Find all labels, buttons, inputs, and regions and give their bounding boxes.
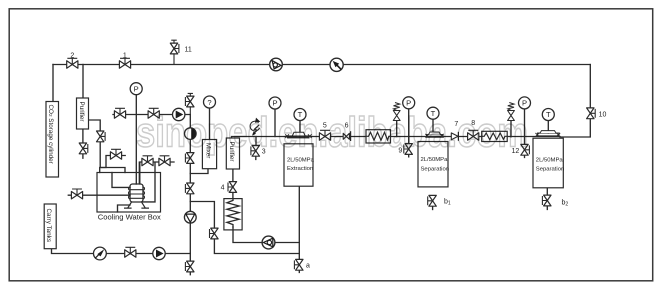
wire main process line (232, 137, 561, 139)
svg-text:Separation: Separation (536, 167, 565, 173)
separation vessel 2 (533, 131, 563, 188)
valve 3 (251, 145, 260, 156)
cooling water inlet valve 1 (142, 156, 153, 166)
valve 8 (468, 130, 479, 140)
wire purifier1 side outlet through valve into water box (89, 120, 126, 173)
wire P4 gauge stem and vent 12 stub (524, 109, 526, 158)
separation vessel 1 (418, 132, 448, 187)
gauge question (204, 96, 216, 108)
vent valve 9 (404, 144, 413, 155)
cooling water inlet valve 2 (159, 156, 170, 166)
manifold valve left (114, 108, 125, 118)
CO2 storage cylinder (46, 102, 59, 178)
wire branch from column to valve and lower line (190, 202, 299, 254)
svg-text:T: T (546, 110, 551, 119)
column valve lower (185, 183, 194, 194)
svg-text:b1: b1 (444, 199, 451, 207)
circulation pump (262, 236, 275, 249)
svg-text:10: 10 (599, 112, 607, 119)
heat exchanger 2 (horizontal zigzag) (482, 131, 508, 141)
wire gauge P1 column down to cooling coil (135, 95, 137, 184)
svg-text:11: 11 (185, 46, 192, 53)
heater (vertical zigzag) (224, 199, 242, 230)
wire extraction vessel bottom column (298, 186, 300, 273)
valve 4 (228, 182, 237, 193)
purifier1 vent valve (79, 143, 88, 154)
wire purifier1 bottom stem (82, 129, 84, 158)
svg-text:1: 1 (123, 52, 127, 59)
wire CO2 cylinder riser (52, 65, 54, 102)
vent valve 12 (521, 144, 530, 155)
svg-text:4: 4 (221, 185, 225, 192)
wire separation1 drain stub (432, 206, 434, 209)
valve 5 (319, 130, 330, 140)
pressure regulator (250, 118, 260, 136)
gauge T3 (542, 109, 554, 121)
svg-text:Separation: Separation (421, 166, 450, 172)
valve 6 (small with bar) (343, 132, 350, 141)
cooling water feed valve (110, 149, 121, 159)
gauge P1 (130, 83, 142, 95)
svg-text:2L/50MPa: 2L/50MPa (287, 157, 315, 163)
relief valve 2 (508, 103, 515, 121)
extraction vessel 2L/50MPa (284, 132, 313, 186)
svg-text:2L/50MPa: 2L/50MPa (421, 157, 449, 163)
wire coil upper left feed (112, 173, 130, 188)
wire cooling water valve line with elbow into box (100, 156, 126, 173)
high pressure pump on manifold (173, 108, 185, 120)
gauge T1 (294, 109, 306, 121)
bottom line valve (125, 247, 136, 257)
flow indicator circle on header (270, 58, 283, 71)
wire heater outlet circulation line (233, 227, 299, 243)
svg-text:P: P (134, 84, 139, 93)
wire carry tanks bottom line (52, 249, 191, 254)
valve a (294, 259, 303, 270)
wire relief valve 1 stem (396, 121, 398, 137)
column drain valve (185, 261, 194, 272)
manifold valve right (148, 108, 159, 118)
column pump (down) (184, 211, 196, 223)
wire drain stub below bottom junction (189, 254, 191, 275)
valve 1 (119, 58, 130, 68)
valve 10 (587, 108, 596, 119)
wire valve3 vent column (255, 137, 257, 160)
purifier 1 (77, 98, 89, 129)
wire mixer bottom to column (190, 169, 208, 174)
wire coil bottom left pipe (118, 205, 131, 212)
svg-text:P: P (522, 99, 527, 108)
wire T2 gauge stem (432, 119, 434, 132)
cooling water box (97, 173, 161, 213)
wire T1 gauge stem (299, 121, 301, 133)
svg-text:Carry Tanks: Carry Tanks (45, 209, 52, 242)
svg-text:CO2 Storage cylinder: CO2 Storage cylinder (47, 105, 54, 164)
wire purifier2 to valve4 to heater (232, 169, 234, 199)
svg-text:a: a (306, 263, 310, 270)
wire T3 gauge stem (547, 121, 549, 134)
pump bottom line (153, 247, 165, 259)
wire drain valve line into coil (68, 194, 130, 196)
wire top header line (53, 64, 590, 66)
wire P2 gauge stem (274, 109, 276, 137)
svg-text:Purifier: Purifier (78, 102, 85, 122)
wire gauge stem of level gauge to mixer (209, 108, 211, 140)
branch valve (210, 228, 219, 239)
carry tanks (44, 204, 56, 249)
safety valve above pump column (185, 93, 194, 114)
svg-text:b2: b2 (562, 200, 569, 208)
cooling coil (125, 162, 149, 208)
svg-text:P: P (272, 99, 277, 108)
drain valve b1 (428, 195, 437, 206)
wire separation2 drain stem (546, 188, 548, 210)
column valve upper (185, 153, 194, 164)
wire right downcomer to separation 2 (560, 65, 590, 138)
svg-text:sinoped.en.alibaba.com: sinoped.en.alibaba.com (136, 109, 528, 156)
purifier1 side valve (97, 131, 106, 142)
svg-text:2L/50MPa: 2L/50MPa (536, 157, 564, 163)
valve 2 (67, 58, 78, 68)
svg-text:?: ? (207, 98, 211, 107)
wire main vertical column (189, 115, 191, 254)
wire cooling water inlet pair line (140, 162, 174, 202)
svg-text:Extraction: Extraction (287, 166, 313, 172)
arrow indicator circle on header (330, 58, 343, 71)
svg-text:P: P (406, 99, 411, 108)
mixer (202, 140, 216, 169)
valve 11 (angle relief) (170, 40, 179, 64)
svg-text:Cooling Water Box: Cooling Water Box (98, 212, 161, 221)
gauge P2 (269, 97, 281, 109)
cooling box side valve (71, 189, 82, 199)
relief valve 1 (393, 103, 400, 121)
gauge P3 (403, 97, 415, 109)
wire purifier1 riser (82, 65, 84, 99)
check valve 7 (451, 132, 458, 140)
flow meter circle bottom line (94, 247, 107, 260)
heat exchanger 1 (horizontal zigzag) (366, 130, 391, 143)
wire pump manifold line (113, 114, 190, 116)
wire relief valve 2 stem (510, 121, 512, 137)
column indicator (crescent) (185, 128, 197, 140)
gauge P4 (519, 97, 531, 109)
wire P3 gauge stem and vent 9 stub (408, 109, 410, 157)
purifier 2 (226, 138, 239, 169)
gauge T2 (427, 107, 439, 119)
svg-text:2: 2 (70, 52, 74, 59)
drain valve b2 (542, 195, 551, 206)
